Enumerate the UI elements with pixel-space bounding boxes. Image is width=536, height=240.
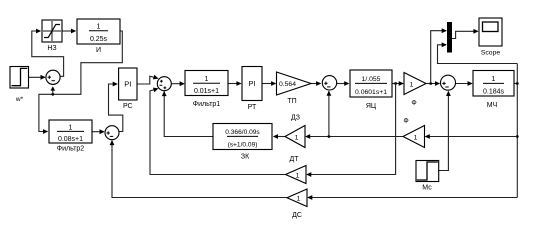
svg-text:0.564: 0.564 — [279, 81, 296, 88]
svg-text:1: 1 — [414, 134, 418, 141]
svg-text:0.08s+1: 0.08s+1 — [58, 136, 83, 143]
svg-text:ЯЦ: ЯЦ — [366, 103, 377, 110]
wire Mux output to Scope — [452, 29, 479, 39]
gain block ДТ — [286, 156, 307, 184]
wire armature current down to ДТ input — [306, 84, 396, 177]
wire РТ to ТП — [262, 81, 276, 86]
wire Мс to sum5 bottom — [439, 91, 451, 171]
svg-text:0.0601s+1: 0.0601s+1 — [355, 89, 387, 96]
svg-text:1: 1 — [410, 81, 414, 88]
sum junction sum4 — [322, 76, 336, 90]
gain block ТП — [277, 72, 312, 105]
wire ДС output to sum2 bottom — [110, 140, 287, 198]
wire sum2 output to РС input — [109, 82, 123, 132]
wire ЯЦ to Ф gain — [392, 81, 404, 86]
saturation block НЗ — [42, 20, 62, 52]
step source Мс — [416, 161, 439, 192]
svg-text:1: 1 — [492, 76, 496, 83]
svg-text:РТ: РТ — [248, 104, 257, 111]
wire ДЗ output to ЗК input — [273, 134, 285, 139]
node Ф2 feed junction — [516, 135, 519, 138]
svg-text:1: 1 — [297, 196, 301, 203]
wire EMF branch up to sum4 bottom — [327, 91, 332, 137]
node МЧ output junction — [516, 82, 519, 85]
wire speed feedback to Ф2 input — [425, 134, 518, 139]
svg-text:ТП: ТП — [287, 98, 296, 105]
svg-text:НЗ: НЗ — [47, 45, 56, 52]
wire НЗ to И — [62, 29, 76, 34]
svg-text:0.25s: 0.25s — [90, 36, 108, 43]
scope block Scope — [479, 18, 502, 57]
svg-text:1: 1 — [69, 124, 73, 131]
svg-text:w*: w* — [15, 96, 24, 103]
filter block Фильтр2 — [49, 120, 92, 153]
wire И output feedback run — [39, 31, 122, 134]
svg-text:(s+1/0.09): (s+1/0.09) — [228, 142, 258, 149]
wire w* step to sum1 — [29, 75, 46, 80]
wire scope channel-1 tap to Mux upper input — [431, 28, 447, 83]
svg-text:И: И — [96, 47, 101, 54]
wire sum1 output to НЗ input — [32, 29, 64, 77]
svg-text:ДЗ: ДЗ — [291, 115, 300, 122]
gain block ДЗ — [285, 115, 305, 148]
svg-text:PI: PI — [124, 80, 131, 89]
svg-text:ДТ: ДТ — [289, 156, 299, 163]
wire ЗК output to sum3 bottom — [162, 91, 213, 137]
wire Ф2 output to ДЗ input — [305, 134, 403, 139]
wire МЧ output trunk — [438, 42, 518, 197]
svg-text:1: 1 — [296, 172, 300, 179]
wire branch into sum1 minus (bottom) — [51, 86, 56, 94]
svg-text:1: 1 — [205, 76, 209, 83]
wire ТП to sum4 — [311, 81, 321, 86]
svg-text:Scope: Scope — [481, 50, 500, 57]
wire ДТ feedback to sum3 lower-left — [150, 86, 286, 174]
node EMF branch junction — [328, 135, 331, 138]
step source w* — [10, 67, 29, 104]
svg-text:0.366/0.09s: 0.366/0.09s — [225, 129, 260, 136]
svg-text:Мс: Мс — [422, 185, 432, 192]
compensation block ЗК — [213, 124, 272, 161]
PI controller РС — [119, 68, 137, 110]
sum junction sum1 — [46, 70, 60, 84]
integrator block И — [77, 19, 120, 54]
PI controller РТ — [242, 67, 262, 112]
svg-text:0.184s: 0.184s — [483, 89, 505, 96]
wire sum3 to Фильтр1 — [171, 81, 185, 86]
wire Фильтр1 to РТ — [228, 81, 242, 86]
svg-text:ДС: ДС — [292, 212, 302, 219]
sum junction sum5 — [441, 75, 456, 90]
transfer block МЧ — [473, 71, 514, 110]
node ЯЦ output junction — [394, 82, 397, 85]
svg-text:1/.055: 1/.055 — [362, 76, 381, 83]
svg-text:Ф: Ф — [403, 118, 408, 125]
svg-text:Фильтр2: Фильтр2 — [57, 146, 85, 153]
wire speed feedback to ДС input — [307, 195, 517, 200]
svg-text:Фильтр1: Фильтр1 — [193, 101, 221, 108]
mux block — [447, 22, 452, 53]
sum junction sum2 — [105, 126, 119, 140]
svg-text:0.01s+1: 0.01s+1 — [194, 88, 219, 95]
sum junction sum3 — [157, 77, 171, 91]
svg-text:Ф: Ф — [411, 100, 416, 107]
svg-text:РС: РС — [123, 103, 133, 110]
gain block ДС — [287, 189, 307, 219]
svg-text:1: 1 — [295, 134, 299, 141]
transfer block ЯЦ — [350, 70, 392, 110]
wire Фильтр2 to sum2 — [92, 129, 105, 134]
svg-text:1: 1 — [97, 24, 101, 31]
node И-feedback branch junction — [51, 93, 54, 96]
wire sum5 to МЧ — [456, 81, 473, 86]
wire sum4 to ЯЦ — [337, 81, 350, 86]
node scope tap junction — [429, 82, 432, 85]
svg-text:PI: PI — [248, 79, 255, 88]
gain block Ф feedback — [403, 118, 425, 148]
wire Ф gain to sum5 — [426, 81, 440, 86]
svg-text:ЗК: ЗК — [241, 154, 250, 161]
filter block Фильтр1 — [185, 71, 228, 109]
wire РС output to sum3 upper-left — [137, 75, 159, 84]
gain block Ф forward — [404, 73, 426, 108]
svg-text:МЧ: МЧ — [487, 102, 498, 109]
